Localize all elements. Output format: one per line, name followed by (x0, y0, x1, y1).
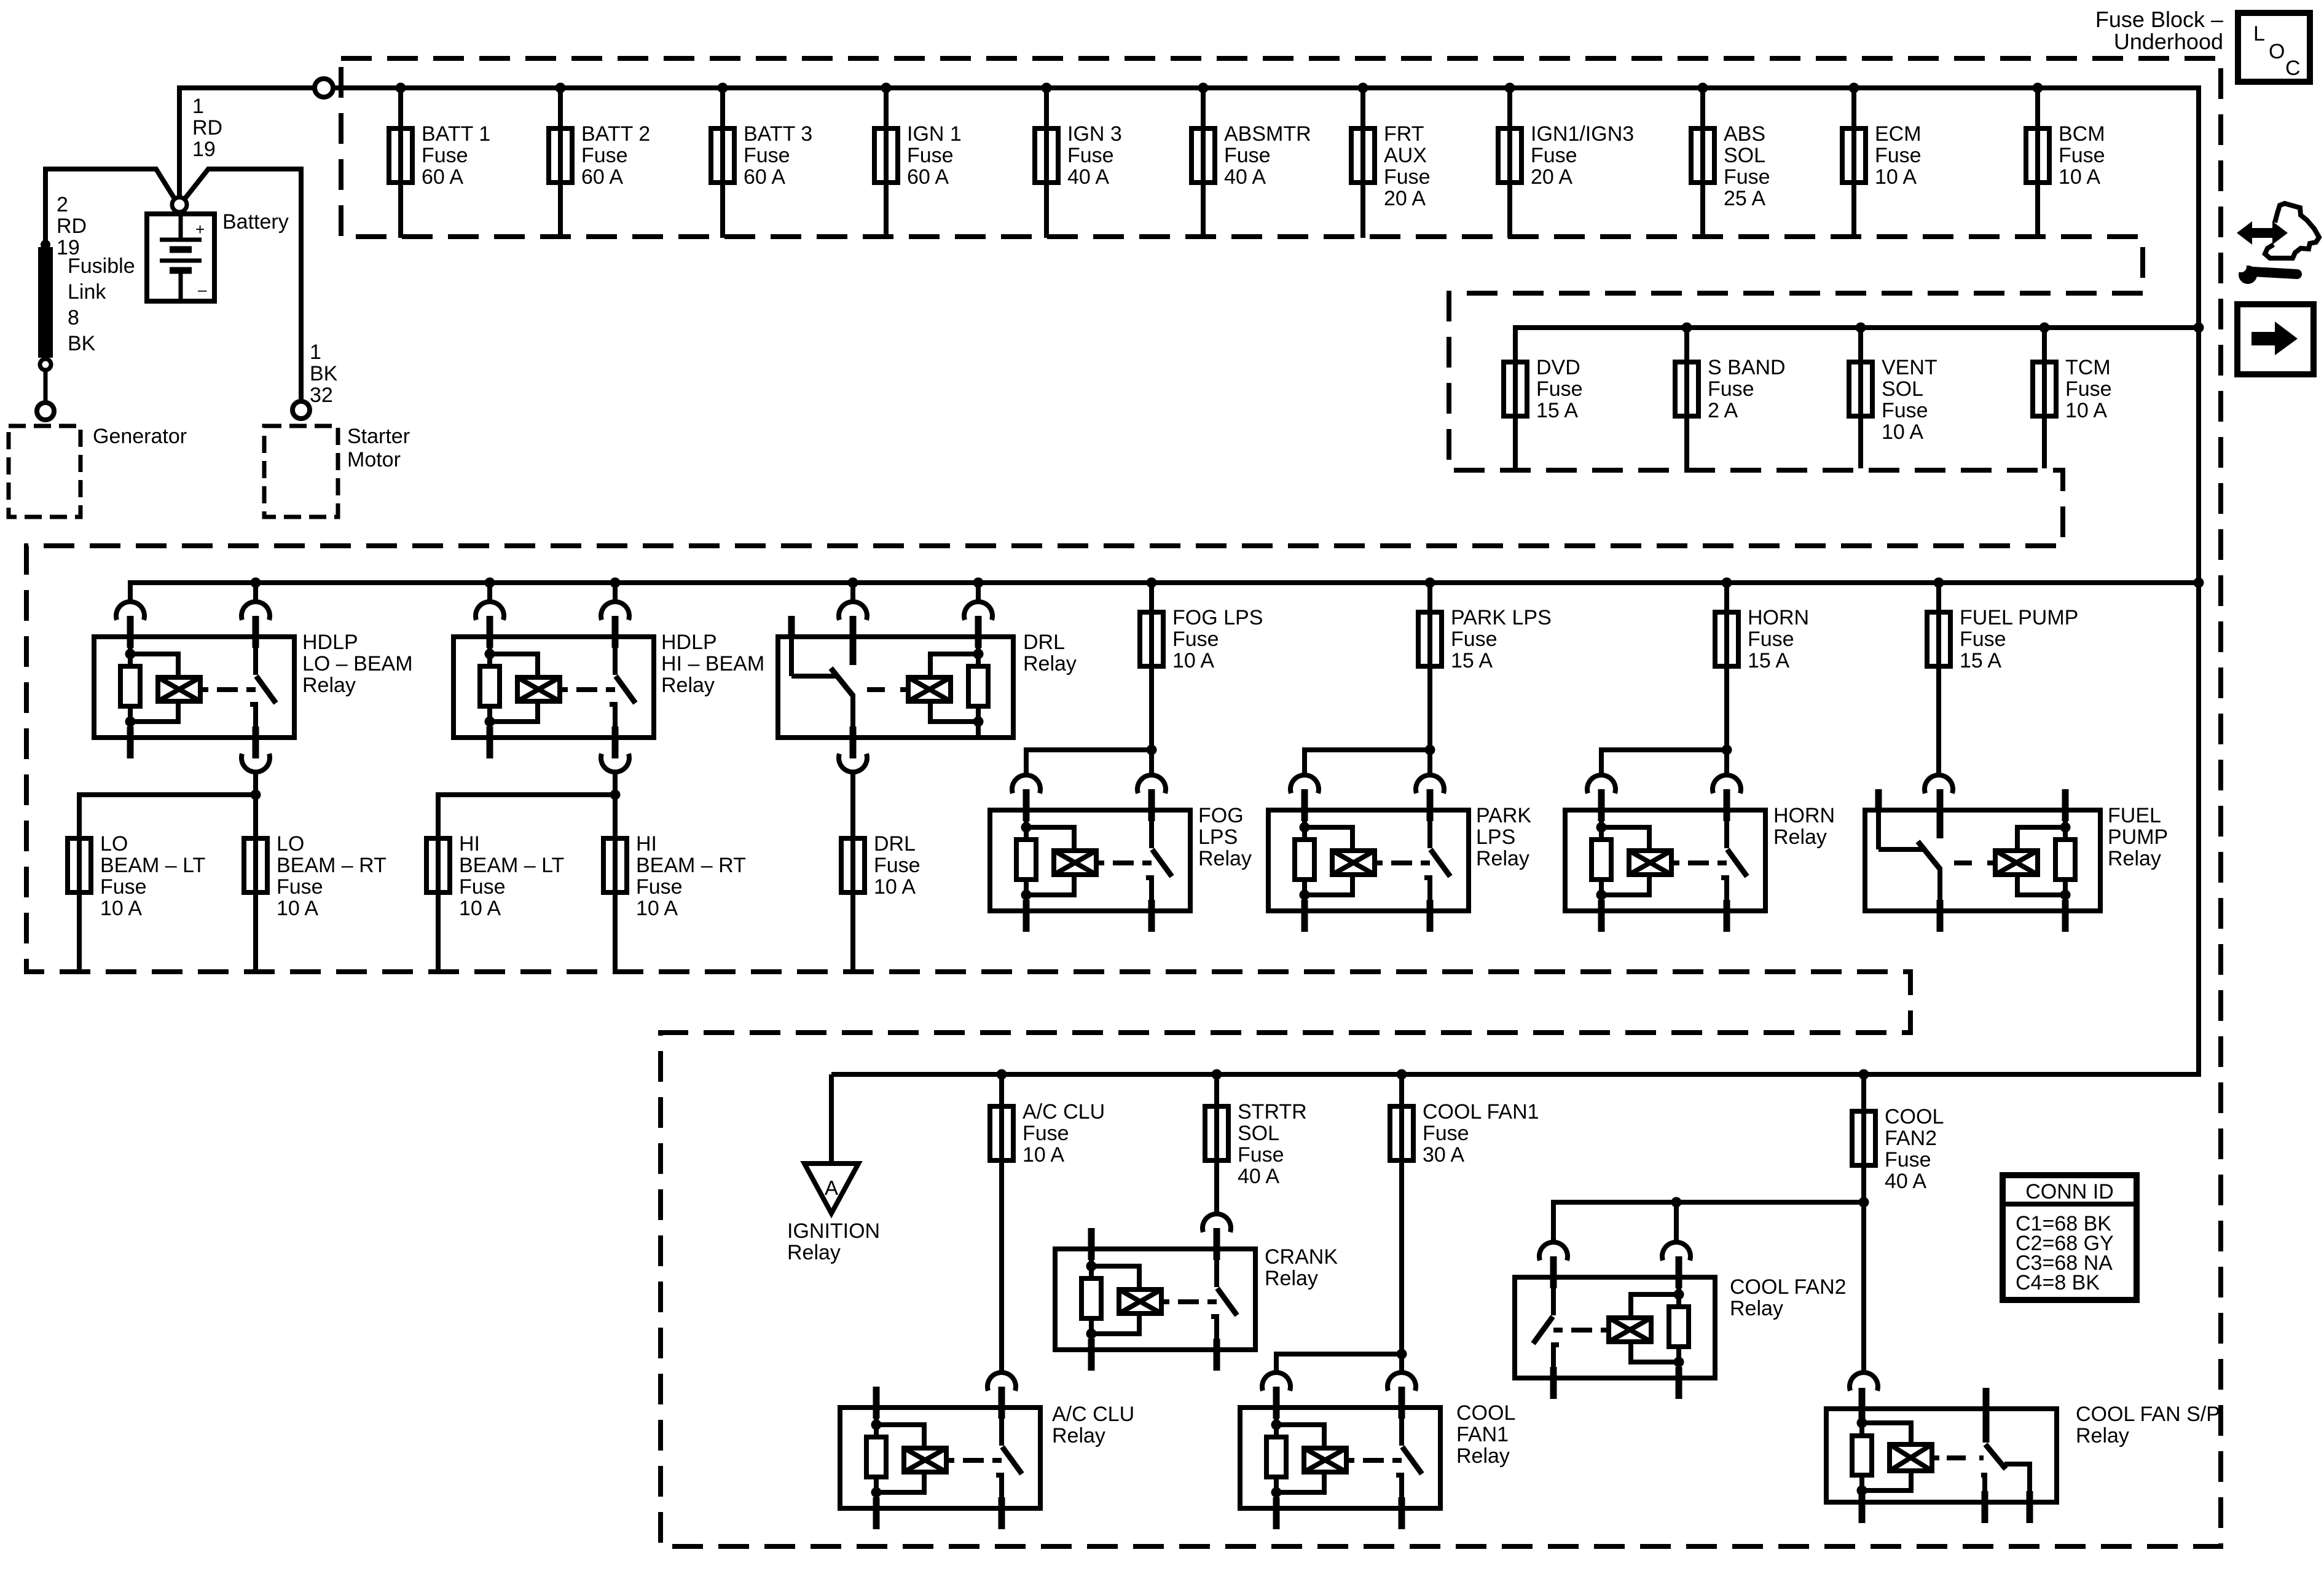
svg-text:10 A: 10 A (459, 897, 501, 920)
svg-text:LO: LO (277, 832, 304, 856)
svg-text:BEAM – LT: BEAM – LT (459, 854, 564, 877)
svg-text:FUEL: FUEL (2108, 804, 2161, 827)
table - CONN ID (2003, 1175, 2137, 1300)
node - relay bus junction (610, 578, 621, 588)
svg-text:10 A: 10 A (277, 897, 318, 920)
fuse LO BEAM - RT 10 A (244, 832, 387, 973)
svg-text:40 A: 40 A (1238, 1165, 1279, 1188)
icon - LOC box (2238, 13, 2310, 82)
svg-text:FUEL PUMP: FUEL PUMP (1960, 606, 2078, 629)
wire - generator branch (2 RD 19) (45, 169, 176, 242)
svg-text:Fuse: Fuse (874, 854, 921, 877)
svg-text:Fuse: Fuse (1172, 628, 1219, 651)
connector - HDLP LO-BEAM relay output (241, 754, 270, 772)
label - COOL FAN1 Relay (1456, 1401, 1515, 1468)
svg-text:LPS: LPS (1198, 825, 1238, 849)
svg-text:Relay: Relay (2076, 1424, 2129, 1447)
svg-text:32: 32 (310, 384, 333, 407)
svg-text:40 A: 40 A (1224, 165, 1266, 189)
node - lower feed bus junction (1212, 1069, 1222, 1080)
label - PARK LPS Relay (1476, 804, 1531, 870)
svg-text:C4=8 BK: C4=8 BK (2016, 1271, 2100, 1294)
svg-text:BEAM – RT: BEAM – RT (636, 854, 746, 877)
svg-text:Fuse: Fuse (1536, 377, 1583, 401)
svg-text:2: 2 (57, 193, 68, 216)
fuse BATT 1 60 A (top row) (389, 83, 490, 238)
svg-text:Fuse: Fuse (1023, 1122, 1069, 1145)
node - COOL FAN2 feed junction (coil) (1671, 1197, 1682, 1208)
fuse A/C CLU 10 A (990, 1074, 1105, 1372)
svg-text:ABS: ABS (1724, 122, 1765, 146)
svg-text:DVD: DVD (1536, 356, 1580, 379)
svg-text:20 A: 20 A (1384, 187, 1426, 210)
svg-text:2 A: 2 A (1708, 399, 1738, 422)
fuse TCM 10 A (accessory row) (2033, 323, 2112, 469)
fuse STRTR SOL 40 A (1205, 1074, 1307, 1213)
label - FUEL PUMP Relay (2108, 804, 2168, 870)
svg-text:SOL: SOL (1238, 1122, 1279, 1145)
wire - relay feed bus (130, 583, 2199, 601)
svg-text:BCM: BCM (2059, 122, 2105, 146)
wire - PARK LPS 15 A fuse to relay pins (1305, 735, 1430, 774)
svg-text:COOL FAN1: COOL FAN1 (1423, 1100, 1539, 1124)
fuse HORN 15 A (relay feed) (1715, 583, 1809, 735)
svg-text:Fuse: Fuse (1423, 1122, 1469, 1145)
svg-text:1: 1 (192, 95, 204, 118)
svg-text:LO – BEAM: LO – BEAM (302, 652, 413, 675)
svg-text:BK: BK (68, 332, 96, 355)
svg-text:IGN 3: IGN 3 (1067, 122, 1122, 146)
label - Starter Motor (347, 425, 410, 471)
fuse LO BEAM - LT 10 A (68, 832, 205, 973)
svg-text:L: L (2253, 22, 2265, 45)
svg-text:15 A: 15 A (1451, 649, 1493, 672)
svg-text:Relay: Relay (2108, 847, 2161, 870)
wire - battery positive feed to bus (1 RD 19) (179, 88, 314, 201)
fuse BATT 3 60 A (top row) (711, 83, 812, 238)
node - relay bus junction (1722, 578, 1732, 588)
generator (dashed box) (9, 426, 80, 517)
svg-text:15 A: 15 A (1536, 399, 1578, 422)
label - circuit 2 RD 19 (57, 193, 87, 259)
node - relay bus junction (973, 578, 984, 588)
svg-text:Fuse: Fuse (1531, 144, 1577, 167)
relay K9 A/C CLU (840, 1372, 1040, 1529)
svg-text:Fuse: Fuse (1960, 628, 2006, 651)
svg-text:C: C (2285, 57, 2301, 80)
wire - main battery bus (top) (333, 85, 2199, 90)
label - A/C CLU Relay (1052, 1403, 1134, 1447)
svg-text:ECM: ECM (1875, 122, 1922, 146)
svg-text:60 A: 60 A (744, 165, 785, 189)
label - Fusible Link 8 BK (68, 254, 135, 355)
svg-text:Fuse Block –: Fuse Block – (2095, 7, 2223, 32)
svg-text:15 A: 15 A (1960, 649, 2001, 672)
svg-text:+: + (195, 220, 205, 238)
fuse HI BEAM - LT 10 A (426, 832, 564, 973)
svg-text:Fusible: Fusible (68, 254, 135, 278)
relay K6 HORN (1565, 775, 1765, 932)
svg-text:RD: RD (192, 116, 222, 140)
svg-text:COOL FAN S/P: COOL FAN S/P (2076, 1403, 2220, 1426)
svg-text:Relay: Relay (1456, 1444, 1510, 1468)
fuse DVD 15 A (accessory row) (1504, 356, 1583, 468)
label - HDLP LO-BEAM Relay (302, 631, 413, 697)
svg-text:A/C CLU: A/C CLU (1023, 1100, 1105, 1124)
svg-text:Motor: Motor (347, 448, 401, 471)
svg-text:HI: HI (459, 832, 480, 856)
wire - bus drop (850, 583, 855, 601)
node - lower feed bus junction (997, 1069, 1007, 1080)
svg-text:25 A: 25 A (1724, 187, 1765, 210)
svg-text:Fuse: Fuse (1875, 144, 1922, 167)
svg-text:10 A: 10 A (874, 875, 916, 899)
svg-text:Fuse: Fuse (1384, 165, 1431, 189)
svg-text:BEAM – LT: BEAM – LT (100, 854, 205, 877)
svg-text:COOL: COOL (1885, 1105, 1944, 1128)
svg-text:40 A: 40 A (1885, 1170, 1926, 1193)
svg-text:60 A: 60 A (422, 165, 463, 189)
svg-text:CRANK: CRANK (1265, 1245, 1338, 1269)
svg-text:FAN2: FAN2 (1885, 1127, 1937, 1150)
svg-text:Relay: Relay (1198, 847, 1252, 870)
svg-text:Starter: Starter (347, 425, 410, 448)
ring terminal - bus splice (315, 79, 333, 97)
wire - HORN 15 A fuse to relay pins (1601, 735, 1727, 774)
svg-text:A/C CLU: A/C CLU (1052, 1403, 1134, 1426)
fuse HI BEAM - RT 10 A (603, 832, 746, 973)
node - relay bus / right bus junction (2194, 578, 2204, 588)
relay K7 FUEL PUMP (1865, 775, 2100, 932)
svg-text:AUX: AUX (1384, 144, 1427, 167)
svg-text:Fuse: Fuse (100, 875, 147, 899)
node - PARK LPS 15 A relay feed junction (1425, 745, 1435, 755)
svg-text:IGN1/IGN3: IGN1/IGN3 (1531, 122, 1634, 146)
node - lower feed bus junction (1397, 1069, 1407, 1080)
svg-text:10 A: 10 A (1172, 649, 1214, 672)
svg-text:RD: RD (57, 215, 87, 238)
node - relay bus junction (1147, 578, 1157, 588)
label - DRL Relay (1023, 631, 1077, 675)
svg-text:COOL: COOL (1456, 1401, 1515, 1425)
node - accessory bus / right bus junction (2194, 323, 2204, 333)
svg-text:Fuse: Fuse (459, 875, 506, 899)
fuse S BAND 2 A (accessory row) (1675, 323, 1786, 469)
svg-text:8: 8 (68, 306, 79, 329)
fuse FUEL PUMP 15 A (relay feed) (1927, 583, 2078, 774)
node - lower feed bus junction (1859, 1069, 1869, 1080)
relay K8 IGNITION (triangle) (804, 1074, 858, 1213)
node - relay bus junction (485, 578, 495, 588)
fuse DRL 10 A (841, 832, 921, 973)
wire - right feed bus (vertical) (2196, 85, 2201, 1074)
fusible link 8 BK (38, 240, 53, 401)
node - relay bus junction (1934, 578, 1944, 588)
svg-text:PARK LPS: PARK LPS (1451, 606, 1552, 629)
connector - HDLP HI-BEAM relay output (601, 754, 629, 772)
label - COOL FAN2 Relay (1730, 1275, 1847, 1320)
relay K1 HDLP LO-BEAM (94, 602, 294, 758)
svg-text:PARK: PARK (1476, 804, 1531, 827)
svg-text:Fuse: Fuse (422, 144, 468, 167)
fuse FOG LPS 10 A (relay feed) (1140, 583, 1263, 735)
svg-text:Fuse: Fuse (2065, 377, 2112, 401)
svg-text:Relay: Relay (661, 674, 715, 697)
svg-text:PUMP: PUMP (2108, 825, 2168, 849)
relay K13 COOL FAN S/P (1826, 1372, 2057, 1523)
relay K12 COOL FAN2 (1515, 1242, 1715, 1399)
fuse VENT 10 A (accessory row) (1849, 323, 1937, 469)
label - FOG LPS Relay (1198, 804, 1252, 870)
fuse ABS 25 A (top row) (1691, 83, 1770, 238)
fuse IGN1/IGN3 20 A (top row) (1498, 83, 1634, 238)
svg-text:Relay: Relay (1730, 1297, 1783, 1320)
relay K10 CRANK (1055, 1214, 1255, 1371)
svg-text:HORN: HORN (1773, 804, 1835, 827)
fuse COOL FAN1 30 A (1390, 1074, 1539, 1354)
node - relay bus junction (848, 578, 858, 588)
svg-text:COOL FAN2: COOL FAN2 (1730, 1275, 1847, 1299)
svg-text:Relay: Relay (1773, 825, 1827, 849)
node - relay bus junction (1425, 578, 1435, 588)
svg-text:10 A: 10 A (100, 897, 142, 920)
svg-text:10 A: 10 A (636, 897, 678, 920)
fuse BATT 2 60 A (top row) (549, 83, 650, 238)
svg-text:–: – (198, 280, 207, 299)
node - COOL FAN1 relay feed junction (1397, 1349, 1407, 1360)
svg-text:ABSMTR: ABSMTR (1224, 122, 1311, 146)
label - circuit 1 BK 32 (310, 341, 338, 407)
svg-text:Fuse: Fuse (907, 144, 954, 167)
svg-text:20 A: 20 A (1531, 165, 1572, 189)
svg-text:CONN ID: CONN ID (2025, 1180, 2114, 1203)
svg-text:10 A: 10 A (2065, 399, 2107, 422)
svg-text:Fuse: Fuse (581, 144, 628, 167)
svg-text:Fuse: Fuse (1067, 144, 1114, 167)
label - circuit 1 RD 19 (192, 95, 222, 161)
fuse FRT 20 A (top row) (1351, 83, 1431, 238)
svg-text:Fuse: Fuse (1748, 628, 1794, 651)
label - CRANK Relay (1265, 1245, 1338, 1290)
relay K3 DRL (778, 602, 1013, 758)
node - LO BEAM fuse junction (251, 790, 261, 800)
svg-text:HI – BEAM: HI – BEAM (661, 652, 764, 675)
node - HORN 15 A relay feed junction (1722, 745, 1732, 755)
svg-text:FAN1: FAN1 (1456, 1423, 1509, 1446)
svg-text:VENT: VENT (1882, 356, 1937, 379)
relay K11 COOL FAN1 (1240, 1372, 1440, 1529)
ring terminal - starter motor (292, 401, 310, 419)
svg-text:19: 19 (192, 138, 216, 161)
fuse BCM 10 A (top row) (2026, 83, 2105, 238)
svg-text:Relay: Relay (1052, 1424, 1105, 1447)
svg-text:LO: LO (100, 832, 128, 856)
svg-text:BATT 2: BATT 2 (581, 122, 650, 146)
svg-text:Relay: Relay (1023, 652, 1077, 675)
fuse ABSMTR 40 A (top row) (1191, 83, 1311, 238)
svg-text:BEAM – RT: BEAM – RT (277, 854, 387, 877)
svg-text:Link: Link (68, 280, 106, 304)
svg-text:BATT 3: BATT 3 (744, 122, 812, 146)
relay K5 PARK LPS (1268, 775, 1469, 932)
svg-text:15 A: 15 A (1748, 649, 1789, 672)
wire - bus drop (613, 583, 618, 601)
svg-text:Fuse: Fuse (1882, 399, 1928, 422)
starter motor (dashed box) (264, 426, 338, 517)
fuse IGN 3 40 A (top row) (1035, 83, 1122, 238)
label - HDLP HI-BEAM Relay (661, 631, 764, 697)
label - IGNITION Relay (787, 1219, 880, 1264)
svg-text:S BAND: S BAND (1708, 356, 1786, 379)
svg-text:DRL: DRL (1023, 631, 1065, 654)
svg-text:60 A: 60 A (907, 165, 949, 189)
wire - COOL FAN1 fuse to relay pins (1276, 1354, 1402, 1372)
fuse ECM 10 A (top row) (1842, 83, 1922, 238)
wire - bus drop (976, 583, 981, 601)
fuse PARK LPS 15 A (relay feed) (1418, 583, 1552, 735)
node - COOL FAN2 feed junction (right) (1859, 1197, 1869, 1208)
node - relay bus junction (251, 578, 261, 588)
svg-text:Fuse: Fuse (1724, 165, 1770, 189)
label - Fuse Block - Underhood (2095, 7, 2223, 54)
svg-text:HI: HI (636, 832, 657, 856)
svg-text:Fuse: Fuse (636, 875, 683, 899)
svg-text:30 A: 30 A (1423, 1143, 1464, 1167)
wire - bus drop (253, 583, 258, 601)
wire - HDLP LO-BEAM output to LO BEAM fuses (79, 773, 256, 836)
node - HI BEAM fuse junction (610, 790, 621, 800)
svg-text:IGNITION: IGNITION (787, 1219, 880, 1243)
fuse COOL FAN2 40 A (1852, 1074, 1944, 1372)
svg-text:SOL: SOL (1724, 144, 1765, 167)
svg-text:Fuse: Fuse (1224, 144, 1271, 167)
relay K2 HDLP HI-BEAM (453, 602, 654, 758)
label - HORN Relay (1773, 804, 1835, 849)
icon - service info (double arrow, outline, wrench) (2236, 203, 2319, 284)
wire - bus drop (487, 583, 492, 601)
svg-text:Fuse: Fuse (1451, 628, 1498, 651)
svg-text:Relay: Relay (302, 674, 356, 697)
wire - DRL relay output to DRL fuse (850, 773, 855, 836)
svg-text:Fuse: Fuse (1238, 1143, 1284, 1167)
svg-text:HORN: HORN (1748, 606, 1809, 629)
battery BT1 (147, 197, 214, 301)
relay K4 FOG LPS (990, 775, 1190, 932)
svg-text:Relay: Relay (1265, 1267, 1318, 1290)
wire - HDLP HI-BEAM output to HI BEAM fuses (438, 773, 615, 836)
svg-text:O: O (2269, 40, 2285, 63)
svg-text:Relay: Relay (787, 1241, 841, 1264)
svg-text:Fuse: Fuse (1708, 377, 1754, 401)
svg-text:LPS: LPS (1476, 825, 1515, 849)
svg-text:10 A: 10 A (2059, 165, 2100, 189)
svg-text:Battery: Battery (222, 210, 289, 234)
svg-text:DRL: DRL (874, 832, 916, 856)
svg-text:A: A (825, 1176, 838, 1199)
svg-text:HDLP: HDLP (661, 631, 717, 654)
svg-text:Generator: Generator (93, 425, 187, 448)
svg-text:Underhood: Underhood (2114, 29, 2223, 54)
svg-text:10 A: 10 A (1023, 1143, 1064, 1167)
svg-text:Relay: Relay (1476, 847, 1529, 870)
svg-text:HDLP: HDLP (302, 631, 358, 654)
svg-text:FRT: FRT (1384, 122, 1424, 146)
ring terminal - generator (37, 403, 54, 420)
svg-text:STRTR: STRTR (1238, 1100, 1307, 1124)
svg-text:SOL: SOL (1882, 377, 1923, 401)
svg-text:BK: BK (310, 362, 338, 385)
connector - DRL relay output (839, 754, 867, 772)
svg-text:Fuse: Fuse (277, 875, 323, 899)
wire - lower feed bus to relays (831, 1072, 2201, 1077)
svg-text:10 A: 10 A (1875, 165, 1917, 189)
svg-text:Fuse: Fuse (744, 144, 790, 167)
svg-text:FOG: FOG (1198, 804, 1244, 827)
svg-text:FOG LPS: FOG LPS (1172, 606, 1263, 629)
svg-text:TCM: TCM (2065, 356, 2111, 379)
fuse IGN 1 60 A (top row) (874, 83, 962, 238)
svg-text:40 A: 40 A (1067, 165, 1109, 189)
svg-text:IGN 1: IGN 1 (907, 122, 962, 146)
svg-text:Fuse: Fuse (2059, 144, 2105, 167)
svg-text:1: 1 (310, 341, 321, 364)
svg-text:Fuse: Fuse (1885, 1148, 1931, 1171)
label - COOL FAN S/P Relay (2076, 1403, 2220, 1447)
wire - accessory bus (DVD row) (1515, 328, 2199, 360)
svg-text:10 A: 10 A (1882, 420, 1923, 444)
svg-text:60 A: 60 A (581, 165, 623, 189)
svg-text:BATT 1: BATT 1 (422, 122, 490, 146)
wire - COOL FAN2 feed branch (1553, 1202, 1864, 1242)
wire - FOG LPS 10 A fuse to relay pins (1026, 735, 1152, 774)
icon - arrow box (continuation) (2237, 304, 2314, 374)
node - FOG LPS 10 A relay feed junction (1147, 745, 1157, 755)
wire - starter branch (1 BK 32) (183, 169, 301, 401)
